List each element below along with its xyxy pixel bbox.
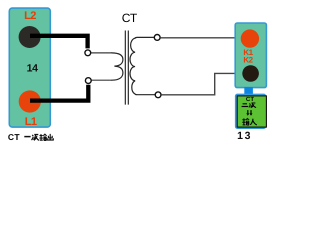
svg-text:K2: K2 xyxy=(243,55,253,64)
svg-text:L2: L2 xyxy=(24,10,36,22)
svg-text:L1: L1 xyxy=(25,116,37,128)
svg-text:CT: CT xyxy=(122,11,138,25)
svg-text:CT: CT xyxy=(8,132,20,142)
svg-text:13: 13 xyxy=(237,130,252,142)
svg-text:14: 14 xyxy=(27,63,39,75)
svg-text:CT: CT xyxy=(246,96,255,103)
